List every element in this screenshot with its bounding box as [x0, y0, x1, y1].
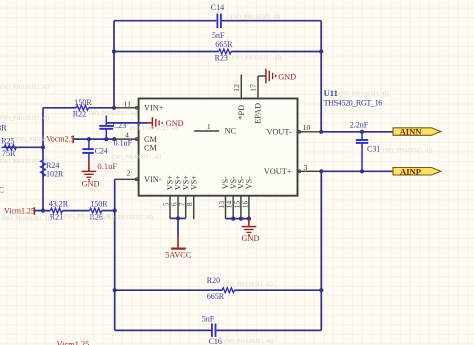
pin 3 [298, 170, 322, 172]
junction VS- b [239, 217, 243, 221]
svg-text:Vicm1.25: Vicm1.25 [4, 207, 35, 216]
svg-text:(NO_PHASES[1..4]): (NO_PHASES[1..4]) [231, 13, 280, 20]
junction VIN- feedback [113, 209, 117, 213]
svg-text:R22: R22 [73, 110, 86, 119]
junction VOUT- feedback [319, 130, 323, 134]
junction right R23 [319, 49, 323, 53]
svg-text:C31: C31 [367, 145, 380, 154]
wire VOUT- to port AINN [321, 131, 393, 133]
svg-text:C: C [0, 185, 5, 194]
svg-text:(NO_PHASES[1..4]): (NO_PHASES[1..4]) [89, 110, 138, 117]
svg-text:11: 11 [124, 99, 132, 108]
svg-text:(NO_PHASES[1..4]): (NO_PHASES[1..4]) [0, 83, 49, 90]
wire R20 net (left segment) [115, 289, 223, 291]
pin 1 NC stub [194, 130, 219, 132]
junction VS+ a [176, 216, 180, 220]
svg-text:Vocm2.5: Vocm2.5 [46, 135, 74, 144]
wire top feedback C14 net (left segment) [114, 20, 216, 22]
svg-text:VS-: VS- [245, 176, 254, 189]
svg-text:150R: 150R [74, 98, 92, 107]
svg-text:NC: NC [225, 126, 237, 135]
resistor R20 [222, 288, 234, 293]
pin 10 [298, 131, 322, 133]
svg-text:102R: 102R [46, 170, 64, 179]
pin 11 [114, 107, 139, 109]
junction left R23 [112, 49, 116, 53]
resistor R22 [76, 105, 88, 110]
junction pin4 wire end [112, 137, 116, 141]
wire feedback left vertical [113, 21, 115, 108]
junction Vicm node [41, 209, 45, 213]
junction C31 top [360, 130, 364, 134]
svg-text:43R: 43R [0, 124, 7, 133]
wire Vicm net (tick to R21) [34, 210, 50, 212]
wire R23 net (left segment) [114, 51, 219, 53]
junction VIN+ feedback [112, 106, 116, 110]
pin 16 VS- [248, 196, 250, 219]
port AINP [393, 168, 441, 176]
svg-text:665R: 665R [207, 292, 225, 301]
pin 17 [257, 76, 259, 99]
svg-text:2.2nF: 2.2nF [350, 120, 369, 129]
resistor R25 [4, 145, 16, 150]
junction C24 on CM wire [87, 137, 91, 141]
wire VOUT+ to port AINP [321, 170, 393, 172]
junction left R20 [113, 288, 117, 292]
wire bottom feedback left vertical [114, 211, 116, 331]
junction R25 [41, 145, 45, 149]
ground VS- pins [248, 219, 250, 227]
wire top feedback C14 net (right segment) [222, 20, 321, 22]
svg-text:4: 4 [125, 130, 129, 139]
svg-text:(NO_PHASES[1..4]): (NO_PHASES[1..4]) [0, 158, 49, 165]
wire VS- rail [226, 218, 249, 220]
pin 12 [240, 75, 242, 99]
pin 4 [114, 138, 138, 140]
svg-text:(NO_PHASES[1..4]): (NO_PHASES[1..4]) [339, 90, 388, 97]
svg-text:(NO_PHASES[1..4]): (NO_PHASES[1..4]) [224, 338, 273, 345]
svg-text:R25: R25 [1, 136, 14, 145]
junction right R20 [319, 288, 323, 292]
svg-text:C24: C24 [95, 146, 108, 155]
resistor R23 [219, 49, 231, 54]
svg-text:AINN: AINN [400, 127, 423, 137]
ground C23 (sideways) [148, 122, 153, 124]
wire C23 to GND [106, 122, 147, 124]
svg-text:3: 3 [303, 163, 307, 172]
svg-text:5nF: 5nF [212, 31, 225, 40]
svg-text:VOUT-: VOUT- [266, 127, 291, 136]
svg-text:*PD: *PD [237, 105, 246, 120]
wire C16 net (right segment) [216, 329, 321, 331]
capacitor C14 [216, 14, 218, 28]
svg-text:16: 16 [240, 201, 249, 209]
resistor R26 [90, 208, 102, 213]
svg-text:0.1uF: 0.1uF [114, 139, 133, 148]
wire Vicm net (R26 to junction) [102, 210, 115, 212]
pin 7 VS+ [185, 196, 187, 219]
svg-text:GND: GND [242, 234, 260, 243]
svg-text:R20: R20 [207, 276, 220, 285]
svg-text:75R: 75R [2, 149, 16, 158]
wire R25 net [2, 146, 44, 148]
capacitor C16 [211, 324, 213, 337]
svg-text:0.1uF: 0.1uF [97, 161, 117, 171]
svg-text:(NO_PHASE): (NO_PHASE) [16, 136, 50, 143]
junction C31 bottom [360, 169, 364, 173]
svg-text:VIN-: VIN- [144, 175, 162, 184]
junction VS- a [231, 217, 235, 221]
power 5AVCC [177, 236, 179, 249]
svg-text:5nF: 5nF [202, 314, 215, 323]
capacitor C24 [88, 139, 90, 148]
svg-text:(NO_PHASES[1..4]): (NO_PHASES[1..4]) [383, 147, 432, 154]
pin 8 VS+ [193, 196, 195, 220]
resistor R21 [51, 208, 63, 213]
capacitor C31 [361, 132, 363, 140]
svg-text:43.2R: 43.2R [49, 200, 69, 209]
svg-text:GND: GND [278, 72, 296, 81]
svg-text:C16: C16 [209, 337, 222, 345]
junction VOUT+ feedback [319, 169, 323, 173]
pin 2 [115, 178, 139, 180]
pin 15 VS- [240, 196, 242, 219]
svg-text:10: 10 [303, 123, 311, 132]
svg-text:12: 12 [232, 84, 241, 92]
wire VIN- riser [114, 179, 116, 210]
wire bottom feedback right vertical [320, 171, 322, 330]
svg-text:R21: R21 [50, 212, 63, 221]
svg-text:R23: R23 [215, 53, 228, 62]
svg-text:17: 17 [249, 84, 258, 92]
svg-text:2: 2 [126, 168, 130, 177]
svg-text:(NO_PHASES[1..4]): (NO_PHASES[1..4]) [223, 281, 272, 288]
capacitor C23 [105, 116, 107, 126]
svg-text:CM: CM [144, 144, 158, 153]
wire Vocm net [73, 138, 114, 140]
svg-text:(NO_PHASES[1..4]): (NO_PHASES[1..4]) [2, 216, 51, 223]
wire VIN+ net (corner to R22) [43, 107, 76, 109]
ground C24 [88, 161, 90, 172]
svg-text:Vicm1.25: Vicm1.25 [57, 340, 90, 345]
svg-text:GND: GND [82, 179, 100, 188]
svg-text:EPAD: EPAD [254, 103, 263, 124]
svg-text:(NO_PHASES[1..4]): (NO_PHASES[1..4]) [232, 55, 281, 62]
svg-text:(NO_PHASES[1..4]): (NO_PHASES[1..4]) [130, 125, 179, 132]
wire R23 net (right segment) [231, 51, 321, 53]
wire left input vertical [42, 108, 44, 211]
port AINN [393, 128, 441, 136]
svg-text:665R: 665R [215, 40, 233, 49]
wire Vicm net (R21 to R26) [63, 210, 90, 212]
svg-text:(NO_PHASES[1..4]): (NO_PHASES[1..4]) [0, 114, 49, 121]
pin 13 VS- [225, 196, 227, 219]
svg-text:C14: C14 [211, 3, 224, 12]
svg-text:THS4520_RGT_16: THS4520_RGT_16 [324, 99, 383, 108]
wire VS+ rail [170, 217, 186, 219]
wire VIN+ net (R22 to pin) [89, 107, 115, 109]
svg-text:1: 1 [207, 122, 211, 131]
ground pin17 (sideways) [258, 75, 266, 77]
junction C23 on CM wire [104, 137, 108, 141]
pin 5 VS+ [169, 196, 171, 219]
wire R20 net (right segment) [234, 289, 321, 291]
svg-text:5AVCC: 5AVCC [165, 251, 192, 260]
junction VS- c [247, 217, 251, 221]
resistor R24 (vertical) [41, 160, 46, 176]
wire 5AVCC lead [177, 218, 179, 236]
svg-text:VOUT+: VOUT+ [264, 167, 292, 176]
wire feedback right vertical [320, 21, 322, 132]
pin 6 VS+ [177, 196, 179, 219]
op-amp U11 THS4520 body [139, 99, 298, 196]
pin 14 VS- [232, 196, 234, 219]
svg-text:150R: 150R [90, 200, 108, 209]
svg-text:CM: CM [144, 135, 158, 144]
svg-text:VS+: VS+ [189, 175, 198, 190]
wire C16 net (left segment) [115, 329, 211, 331]
svg-text:(NO_PHASES[1..4]): (NO_PHASES[1..4]) [104, 214, 153, 221]
svg-text:VIN+: VIN+ [144, 104, 164, 113]
svg-text:(NO_PHASES[1..4]): (NO_PHASES[1..4]) [112, 154, 161, 161]
svg-text:AINP: AINP [400, 166, 421, 176]
svg-text:8: 8 [185, 202, 194, 206]
svg-text:U11: U11 [324, 88, 338, 98]
